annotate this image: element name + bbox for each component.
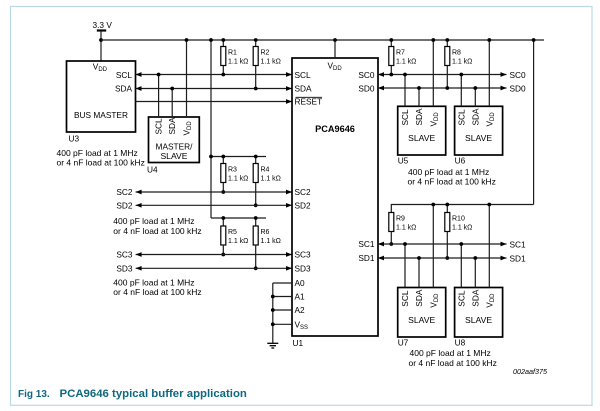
node R6 top <box>254 216 258 220</box>
svg-text:VDD: VDD <box>182 121 194 136</box>
svg-text:VDD: VDD <box>484 293 496 308</box>
wire SD0 line <box>378 87 507 89</box>
wire SC0 line <box>378 74 507 76</box>
svg-text:SLAVE: SLAVE <box>465 315 492 325</box>
svg-text:SLAVE: SLAVE <box>465 133 492 143</box>
node R3 top <box>221 155 225 159</box>
wire VDD branch vertical <box>210 40 212 218</box>
svg-text:SC1: SC1 <box>510 239 527 249</box>
resistor R7 <box>389 40 417 75</box>
node U5 SDA on SD0 <box>417 86 421 90</box>
svg-text:SCL: SCL <box>456 290 466 307</box>
svg-text:RESET: RESET <box>295 97 323 107</box>
node R1 bottom on SCL <box>221 73 225 77</box>
wire A1 pin <box>273 296 292 298</box>
svg-text:400 pF load at 1 MHz: 400 pF load at 1 MHz <box>57 148 138 158</box>
node VDD rail junction at 3.3V <box>99 38 103 42</box>
node U6 VDD on rail <box>487 38 491 42</box>
svg-text:SD3: SD3 <box>116 264 133 274</box>
svg-text:1.1 kΩ: 1.1 kΩ <box>452 225 472 232</box>
svg-text:VDD: VDD <box>484 112 496 127</box>
svg-text:A0: A0 <box>295 278 306 288</box>
node R4 top <box>254 155 258 159</box>
node R7 bottom on SC0 <box>389 73 393 77</box>
svg-text:U4: U4 <box>147 165 158 175</box>
svg-text:VDD: VDD <box>428 293 440 308</box>
node R5 top <box>221 216 225 220</box>
wire SC1 line <box>378 243 507 245</box>
bus master U3 <box>67 61 136 132</box>
svg-text:SD2: SD2 <box>116 201 133 211</box>
svg-text:PCA9646 typical buffer applica: PCA9646 typical buffer application <box>60 388 247 400</box>
svg-text:1.1 kΩ: 1.1 kΩ <box>261 238 281 245</box>
wire SCL bus line <box>136 74 293 76</box>
wire U7 SCL pin <box>404 244 406 288</box>
svg-text:SD1: SD1 <box>510 253 527 263</box>
node U4 SCL on SCL line <box>157 73 161 77</box>
wire SD2 line <box>136 204 292 206</box>
svg-text:1.1 kΩ: 1.1 kΩ <box>261 176 281 183</box>
note 400 pF load block 2 <box>113 216 201 236</box>
svg-text:PCA9646: PCA9646 <box>315 124 355 134</box>
wire U8 VDD pin <box>488 205 490 288</box>
wire VDD top rail <box>101 39 544 41</box>
wire U5 SDA pin <box>418 88 420 106</box>
svg-text:R2: R2 <box>261 50 270 57</box>
wire U6 VDD pin <box>488 40 490 106</box>
svg-text:VDD: VDD <box>428 112 440 127</box>
node A2 junction <box>271 308 275 312</box>
node R7 top on rail <box>389 38 393 42</box>
svg-text:R9: R9 <box>396 216 405 223</box>
svg-text:SDA: SDA <box>295 84 313 94</box>
svg-text:or 4 nF load at 100 kHz: or 4 nF load at 100 kHz <box>409 358 497 368</box>
note 400 pF load block bottom right <box>409 348 497 368</box>
svg-text:SDA: SDA <box>115 84 133 94</box>
wire address pins to ground <box>272 283 274 343</box>
svg-text:R7: R7 <box>396 50 405 57</box>
wire RESET line <box>136 101 293 103</box>
wire U6 SDA pin <box>474 88 476 106</box>
svg-text:U5: U5 <box>398 156 409 166</box>
wire SD1 line <box>378 257 507 259</box>
resistor R8 <box>445 40 473 88</box>
svg-text:SDA: SDA <box>414 108 424 126</box>
node U7 SCL on SC1 <box>403 242 407 246</box>
svg-text:1.1 kΩ: 1.1 kΩ <box>228 176 248 183</box>
slave U7 <box>398 288 446 338</box>
wire right VDD rail vertical <box>533 40 535 205</box>
wire U6 SCL pin <box>460 75 462 107</box>
svg-text:SC1: SC1 <box>358 239 375 249</box>
node U7 SDA on SD1 <box>417 256 421 260</box>
node VSS junction <box>271 322 275 326</box>
svg-text:U6: U6 <box>455 156 466 166</box>
resistor R10 <box>445 205 473 259</box>
node R4 bottom on SD2 <box>254 203 258 207</box>
wire U7 SDA pin <box>418 258 420 288</box>
node A1 junction <box>271 295 275 299</box>
wire U4 SCL pin <box>158 75 160 118</box>
svg-text:SD0: SD0 <box>510 83 527 93</box>
node R5 bottom on SC3 <box>221 253 225 257</box>
node R10 bottom on SD1 <box>445 256 449 260</box>
svg-text:VSS: VSS <box>295 320 309 332</box>
svg-text:SDA: SDA <box>470 108 480 126</box>
svg-text:R10: R10 <box>452 216 465 223</box>
svg-text:SC2: SC2 <box>116 187 133 197</box>
svg-text:SD0: SD0 <box>358 83 375 93</box>
node U4 SDA on SDA line <box>170 87 174 91</box>
resistor R5 <box>221 218 249 255</box>
svg-text:400 pF load at 1 MHz: 400 pF load at 1 MHz <box>113 277 194 287</box>
node R3 bottom on SC2 <box>221 190 225 194</box>
wire U7 VDD pin <box>432 205 434 288</box>
svg-text:R3: R3 <box>228 167 237 174</box>
wire U1 VDD pin to rail <box>334 40 336 58</box>
svg-text:1.1 kΩ: 1.1 kΩ <box>396 59 416 66</box>
node branch on rail <box>209 38 213 42</box>
node R8 top on rail <box>445 38 449 42</box>
svg-text:Fig 13.: Fig 13. <box>18 389 50 400</box>
svg-text:SCL: SCL <box>400 109 410 126</box>
resistor R6 <box>253 218 281 268</box>
svg-text:VDD: VDD <box>328 61 343 73</box>
wire branch to R3 R4 tops <box>211 156 266 158</box>
svg-text:SCL: SCL <box>400 290 410 307</box>
svg-text:SDA: SDA <box>414 289 424 307</box>
slave U6 <box>455 106 503 155</box>
node U1 VDD on rail <box>333 38 337 42</box>
svg-text:or 4 nF load at 100 kHz: or 4 nF load at 100 kHz <box>113 226 201 236</box>
node R2 top on rail <box>254 38 258 42</box>
node R10 top on lower rail <box>445 203 449 207</box>
svg-text:400 pF load at 1 MHz: 400 pF load at 1 MHz <box>113 216 194 226</box>
wire VSS pin <box>273 323 292 325</box>
wire SDA bus line <box>136 88 293 90</box>
wire U8 SDA pin <box>474 258 476 288</box>
slave U8 <box>455 288 503 338</box>
node U7 VDD on lower rail <box>431 203 435 207</box>
wire SC2 line <box>136 191 292 193</box>
wire U8 SCL pin <box>460 244 462 288</box>
svg-text:or 4 nF load at 100 kHz: or 4 nF load at 100 kHz <box>113 287 201 297</box>
note 400 pF load block 3 <box>113 277 201 297</box>
svg-text:1.1 kΩ: 1.1 kΩ <box>396 225 416 232</box>
note 400 pF load block top right <box>408 167 496 187</box>
resistor R9 <box>389 213 417 245</box>
svg-text:SCL: SCL <box>154 118 164 135</box>
wire SC3 line <box>136 254 292 256</box>
svg-text:or 4 nF load at 100 kHz: or 4 nF load at 100 kHz <box>408 176 496 186</box>
svg-text:U3: U3 <box>69 134 80 144</box>
svg-text:SD2: SD2 <box>295 201 312 211</box>
svg-text:U7: U7 <box>398 338 409 348</box>
svg-text:SDA: SDA <box>470 289 480 307</box>
wire U4 VDD pin <box>186 40 188 117</box>
node U8 SCL on SC1 <box>459 242 463 246</box>
svg-text:R5: R5 <box>228 229 237 236</box>
svg-text:SCL: SCL <box>116 70 133 80</box>
resistor R3 <box>221 157 249 193</box>
wire 3.3V down to VDD pin of U3 <box>100 31 102 61</box>
svg-text:SCL: SCL <box>295 70 312 80</box>
node U8 SDA on SD1 <box>473 256 477 260</box>
wire A2 pin <box>273 309 292 311</box>
svg-text:R4: R4 <box>261 167 270 174</box>
svg-text:400 pF load at 1 MHz: 400 pF load at 1 MHz <box>410 348 491 358</box>
svg-text:R8: R8 <box>452 50 461 57</box>
node U6 SDA on SD0 <box>473 86 477 90</box>
svg-text:400 pF load at 1 MHz: 400 pF load at 1 MHz <box>408 167 489 177</box>
wire U5 SCL pin <box>404 75 406 107</box>
svg-text:SLAVE: SLAVE <box>408 315 435 325</box>
node U6 SCL on SC0 <box>459 73 463 77</box>
svg-text:SD3: SD3 <box>295 264 312 274</box>
node R6 bottom on SD3 <box>254 266 258 270</box>
node R8 bottom on SD0 <box>445 86 449 90</box>
ground <box>267 343 278 348</box>
svg-text:R6: R6 <box>261 229 270 236</box>
svg-text:SC3: SC3 <box>116 250 133 260</box>
node U5 VDD on rail <box>431 38 435 42</box>
node R9 bottom on SC1 <box>389 242 393 246</box>
svg-text:SC3: SC3 <box>295 250 312 260</box>
svg-text:SC0: SC0 <box>510 70 527 80</box>
caption Fig 13 <box>18 388 247 400</box>
svg-text:3.3 V: 3.3 V <box>93 20 113 30</box>
resistor R4 <box>253 157 281 206</box>
master/slave U4 <box>149 117 200 163</box>
svg-text:1.1 kΩ: 1.1 kΩ <box>228 238 248 245</box>
svg-text:SC2: SC2 <box>295 187 312 197</box>
slave U5 <box>398 106 446 155</box>
svg-text:VDD: VDD <box>93 62 108 74</box>
wire A0 pin <box>273 282 292 284</box>
svg-text:SD1: SD1 <box>358 253 375 263</box>
svg-text:002aaf375: 002aaf375 <box>513 367 548 376</box>
wire branch to R5 R6 tops <box>211 217 266 219</box>
wire U4 SDA pin <box>171 89 173 118</box>
svg-text:R1: R1 <box>228 50 237 57</box>
svg-text:1.1 kΩ: 1.1 kΩ <box>228 59 248 66</box>
node right rail top <box>532 38 536 42</box>
node branch T R3R4 <box>209 155 213 159</box>
svg-text:or 4 nF load at 100 kHz: or 4 nF load at 100 kHz <box>57 158 145 168</box>
wire U5 VDD pin <box>432 40 434 106</box>
node R1 top on rail <box>221 38 225 42</box>
supply bar <box>97 29 106 31</box>
svg-text:A2: A2 <box>295 305 306 315</box>
svg-text:SDA: SDA <box>167 117 177 135</box>
wire lower VDD rail <box>391 205 533 213</box>
note 400 pF load block 1 <box>57 148 145 168</box>
node U5 SCL on SC0 <box>403 73 407 77</box>
node U4 VDD on rail <box>185 38 189 42</box>
svg-text:1.1 kΩ: 1.1 kΩ <box>452 59 472 66</box>
PCA9646 U1 <box>292 58 378 336</box>
svg-text:1.1 kΩ: 1.1 kΩ <box>261 59 281 66</box>
resistor R1 <box>221 40 249 75</box>
svg-text:SLAVE: SLAVE <box>408 133 435 143</box>
node U8 VDD on lower rail <box>487 203 491 207</box>
svg-text:BUS MASTER: BUS MASTER <box>74 110 128 120</box>
svg-text:A1: A1 <box>295 292 306 302</box>
wire SD3 line <box>136 267 292 269</box>
svg-text:SCL: SCL <box>456 109 466 126</box>
svg-text:U8: U8 <box>455 338 466 348</box>
resistor R2 <box>253 40 281 89</box>
node R2 bottom on SDA <box>254 87 258 91</box>
svg-text:U1: U1 <box>293 338 304 348</box>
svg-text:SC0: SC0 <box>358 70 375 80</box>
svg-text:SLAVE: SLAVE <box>160 151 187 161</box>
